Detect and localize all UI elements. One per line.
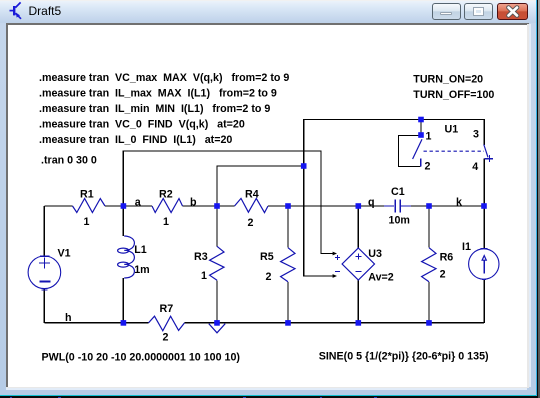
- svg-text:10m: 10m: [389, 215, 410, 227]
- svg-text:2: 2: [248, 217, 254, 229]
- svg-text:2: 2: [266, 271, 272, 283]
- svg-text:R5: R5: [260, 251, 274, 263]
- svg-text:TURN_OFF=100: TURN_OFF=100: [413, 89, 494, 101]
- svg-text:R7: R7: [160, 303, 174, 315]
- svg-text:2: 2: [440, 269, 446, 281]
- svg-text:h: h: [65, 312, 72, 324]
- svg-text:R3: R3: [194, 251, 208, 263]
- svg-text:2: 2: [163, 332, 169, 344]
- svg-text:.measure tran VC_0 FIND V(q: .measure tran VC_0 FIND V(q,k) at=20: [39, 118, 245, 130]
- svg-text:C1: C1: [391, 186, 405, 198]
- svg-text:U3: U3: [368, 248, 382, 260]
- svg-text:1: 1: [84, 216, 90, 228]
- svg-text:.tran 0 30 0: .tran 0 30 0: [41, 154, 97, 166]
- svg-text:Av=2: Av=2: [368, 271, 394, 283]
- svg-text:3: 3: [473, 129, 479, 141]
- svg-text:1: 1: [163, 216, 169, 228]
- svg-text:k: k: [456, 197, 462, 209]
- svg-text:q: q: [368, 197, 375, 209]
- svg-text:U1: U1: [445, 124, 459, 136]
- svg-text:PWL(0 -10 20 -10 20.0000001 10: PWL(0 -10 20 -10 20.0000001 10 100 10): [42, 352, 241, 364]
- svg-text:V1: V1: [58, 248, 71, 260]
- svg-text:4: 4: [472, 161, 478, 173]
- svg-text:.measure tran IL_min MIN I(: .measure tran IL_min MIN I(L1) from=2 to…: [39, 103, 270, 115]
- svg-text:.measure tran IL_max MAX I(: .measure tran IL_max MAX I(L1) from=2 to…: [39, 88, 277, 100]
- svg-text:R6: R6: [440, 251, 454, 263]
- svg-text:1: 1: [426, 130, 432, 142]
- svg-text:TURN_ON=20: TURN_ON=20: [413, 74, 483, 86]
- svg-text:L1: L1: [134, 244, 147, 256]
- svg-text:2: 2: [425, 161, 431, 173]
- svg-text:1: 1: [201, 270, 207, 282]
- svg-text:1m: 1m: [134, 264, 149, 276]
- svg-text:a: a: [135, 197, 142, 209]
- svg-text:.measure tran VC_max MAX V(: .measure tran VC_max MAX V(q,k) from=2 t…: [39, 72, 289, 84]
- svg-text:SINE(0 5 {1/(2*pi)} {20-6*pi}: SINE(0 5 {1/(2*pi)} {20-6*pi} 0 135): [319, 351, 489, 363]
- svg-text:R2: R2: [159, 189, 173, 201]
- svg-text:I1: I1: [462, 241, 471, 253]
- svg-text:R1: R1: [80, 189, 94, 201]
- svg-text:R4: R4: [245, 189, 259, 201]
- svg-text:.measure tran IL_0 FIND I(L: .measure tran IL_0 FIND I(L1) at=20: [39, 134, 232, 146]
- svg-text:b: b: [190, 197, 197, 209]
